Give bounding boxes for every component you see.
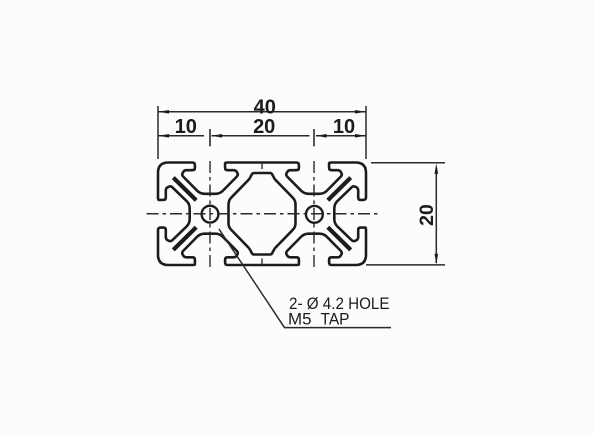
extension line top-right for 20: [371, 162, 445, 164]
tick at 10/20: [209, 129, 211, 146]
dimension line 10 left: [158, 135, 204, 137]
dimension line 20 vertical: [435, 168, 437, 264]
dimension line 20 middle: [212, 135, 310, 137]
leader line to hole: [219, 229, 391, 328]
extension line bottom-right for 20: [366, 264, 445, 266]
extension line left: [157, 106, 159, 159]
extension line right: [365, 106, 367, 159]
web top-left corner: [173, 178, 196, 201]
svg-text:10: 10: [333, 116, 355, 138]
svg-text:10: 10: [175, 116, 197, 138]
centerline horizontal: [147, 213, 379, 215]
tick at 30: [313, 129, 315, 146]
web bottom-right corner: [328, 227, 351, 250]
center mark bottom middle: [261, 259, 263, 267]
svg-text:20: 20: [416, 204, 438, 226]
central octagonal cavity: [229, 173, 296, 255]
centerline vertical left hole: [209, 161, 211, 268]
dimension line 40: [158, 111, 366, 113]
center mark top middle: [261, 162, 263, 169]
dimension line 10 right: [316, 135, 366, 137]
profile outer outline with T-slots: [158, 163, 366, 266]
web top-right corner: [328, 178, 351, 201]
svg-text:20: 20: [253, 116, 275, 138]
hole left (Ø4.2): [202, 206, 219, 223]
web bottom-left corner: [173, 227, 196, 250]
svg-text:M5: M5: [288, 311, 312, 329]
centerline vertical right hole: [313, 161, 315, 268]
hole right (Ø4.2): [306, 206, 323, 223]
svg-text:TAP: TAP: [321, 311, 350, 329]
